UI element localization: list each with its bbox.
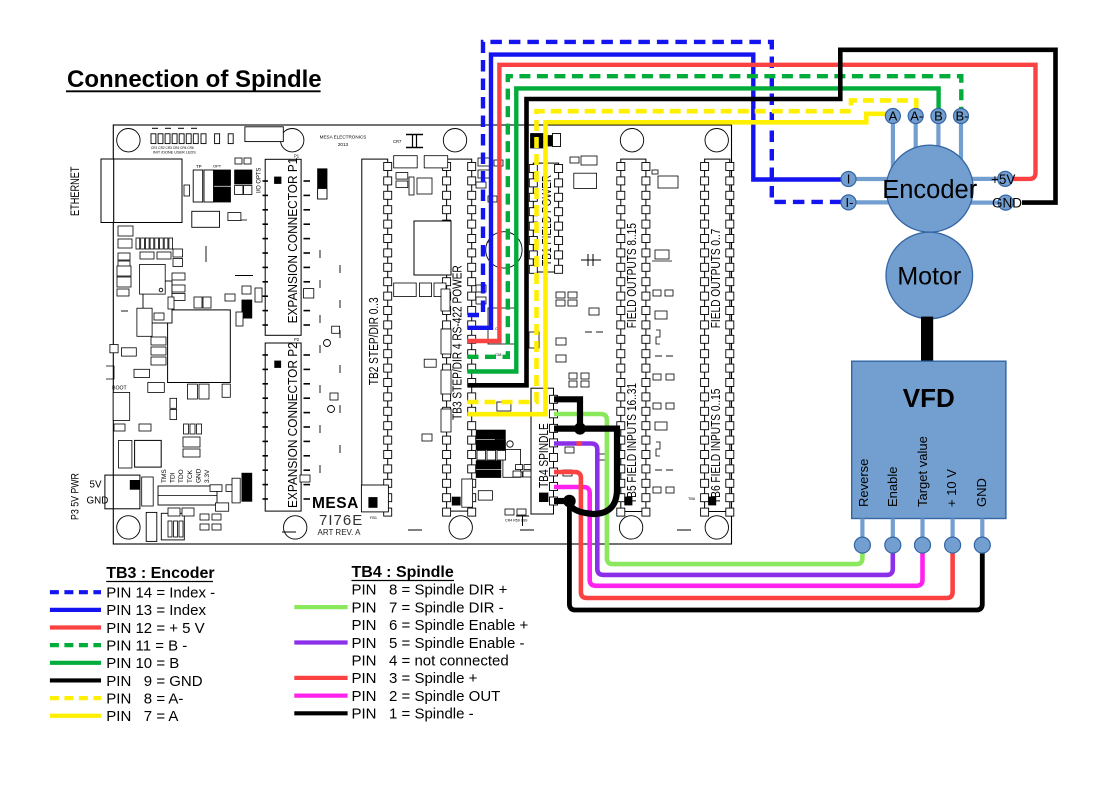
legend swatch TB3 pin13 Index [50, 608, 101, 612]
legend swatch TB4 pin3 Spindle+ [294, 676, 347, 680]
connector P3 5V power [105, 475, 140, 509]
connector P5 [361, 485, 388, 520]
svg-text:TB3 STEP/DIR 4 RS-422 POWER: TB3 STEP/DIR 4 RS-422 POWER [450, 265, 464, 420]
svg-text:I/O OPTS: I/O OPTS [255, 168, 262, 193]
svg-text:PIN 10 = B: PIN 10 = B [106, 655, 179, 672]
motor circle [886, 232, 973, 319]
jumper TB4 pin1 to node (black) [554, 498, 569, 504]
left misc components [106, 226, 262, 537]
connector TB2 STEP/DIR 0..3 [362, 159, 392, 516]
legend TB4 header [352, 564, 455, 581]
component CR7 cap symbol [393, 135, 423, 148]
terminal I- [841, 195, 856, 210]
mid channel components TB2-TB3 [394, 156, 451, 441]
VFD terminal Target value [915, 537, 931, 553]
svg-text:PIN 8 = Spindle DIR +: PIN 8 = Spindle DIR + [352, 582, 508, 599]
svg-text:CR1 CR2 CR3 CR4 CR5: CR1 CR2 CR3 CR4 CR5 CR6 [151, 146, 194, 150]
motor shaft [921, 317, 932, 362]
svg-text:ETHERNET: ETHERNET [70, 166, 82, 216]
opto block W2 W3 [212, 170, 252, 202]
JTAG labels TMS TDI TDO TCK GND 3.3V [161, 468, 211, 483]
svg-text:PIN 5 = Spindle Enable -: PIN 5 = Spindle Enable - [352, 635, 525, 652]
LED row CR1-CR6 [151, 128, 233, 143]
svg-text:PIN 6 = Spindle Enable +: PIN 6 = Spindle Enable + [352, 617, 529, 634]
connector P2 pin-1 marker [275, 361, 281, 368]
legend swatch TB3 pin7 A [50, 714, 101, 718]
junction node pin1 [563, 495, 576, 508]
svg-text:FIELD OUTPUTS 8..15: FIELD OUTPUTS 8..15 [625, 223, 639, 328]
TB1 top black connector [531, 134, 561, 149]
encoder stub lines I I- +5V GND [855, 179, 1001, 203]
label MESA ELECTRONICS 2013 [320, 135, 367, 148]
connector TB1 FIELD POWER [529, 163, 562, 273]
VFD terminal GND [974, 537, 990, 553]
connector P1 pin-1 marker [275, 177, 282, 184]
svg-text:B-: B- [956, 109, 969, 124]
legend swatch TB3 pin12 +5V [50, 625, 101, 629]
terminal A- [908, 109, 923, 124]
svg-text:I-: I- [846, 195, 854, 210]
wire PIN 10 B (green) [468, 88, 939, 371]
svg-text:TP: TP [196, 164, 202, 169]
svg-text:TMS: TMS [161, 469, 168, 483]
svg-text:ART REV. A: ART REV. A [318, 528, 362, 537]
svg-text:P2: P2 [294, 337, 300, 342]
component W6 jumper [318, 169, 327, 199]
svg-text:PIN 2 = Spindle OUT: PIN 2 = Spindle OUT [352, 688, 501, 705]
svg-text:CR4 R59 C89: CR4 R59 C89 [505, 519, 527, 523]
VFD terminal labels [856, 436, 989, 507]
svg-text:PIN 8 = A-: PIN 8 = A- [106, 690, 183, 707]
FPGA chip U6 [168, 310, 231, 383]
junction node pin6/pin8 [574, 423, 586, 435]
component W8 jumper [242, 300, 252, 318]
svg-text:Reverse: Reverse [856, 459, 871, 507]
wire TB4 pin3 Spindle+ (red) [554, 472, 953, 598]
svg-text:PIN 9 = GND: PIN 9 = GND [106, 673, 202, 690]
svg-text:I: I [847, 172, 851, 187]
connector P1 expansion [265, 157, 301, 335]
ethernet jack [101, 159, 182, 223]
svg-text:TB2 STEP/DIR 0..3: TB2 STEP/DIR 0..3 [367, 297, 381, 385]
svg-text:TB4 : Spindle: TB4 : Spindle [352, 564, 454, 581]
connector TB4 pin-1 marker [539, 493, 548, 502]
board edge through jack [113, 159, 115, 223]
jumper TB4 pin8 (black) [554, 399, 580, 425]
wire TB4 pin5 Spindle Enable- (purple) [554, 444, 893, 575]
black jumpers W10 W11 [476, 430, 505, 477]
svg-text:P1: P1 [294, 154, 300, 159]
VFD terminal +10V [945, 537, 961, 553]
legend swatch TB4 pin5 Spindle Enable- [294, 640, 347, 644]
svg-text:INIT /DONE USER LEDS: INIT /DONE USER LEDS [153, 151, 196, 155]
wire TB4 pin1 Spindle- (black) [569, 501, 982, 610]
inductor L6 [135, 440, 162, 467]
connector TB5 pin-1 marker [625, 497, 632, 505]
svg-text:PIN 7 = A: PIN 7 = A [106, 708, 178, 725]
test pads TP1 TP2 [193, 158, 251, 202]
terminal +5V [998, 171, 1013, 186]
component C6 [184, 185, 190, 196]
svg-text:7I76E: 7I76E [319, 512, 363, 529]
svg-text:МESA: МESA [312, 495, 359, 512]
connector TB4 SPINDLE [531, 388, 558, 514]
component R58 [228, 213, 247, 221]
TB5-TB6 channel components [652, 170, 695, 501]
red tick on purple wire [577, 441, 583, 446]
encoder circle [886, 145, 973, 232]
svg-text:OPT: OPT [213, 164, 222, 169]
TB3-TB4 channel components [462, 158, 531, 507]
wire TB4 pin7 Spindle DIR- (light green) [554, 414, 862, 564]
svg-text:3.3V: 3.3V [204, 469, 211, 483]
legend swatch TB3 pin10 B [50, 661, 101, 665]
svg-text:GND: GND [974, 478, 989, 507]
svg-text:GND: GND [195, 468, 202, 483]
svg-text:FIELD OUTPUTS 0..7: FIELD OUTPUTS 0..7 [709, 229, 723, 329]
encoder stub lines A A- B B- [893, 122, 961, 168]
svg-text:TB3 : Encoder: TB3 : Encoder [106, 565, 214, 582]
svg-text:TB6 FIELD INPUTS 0..15: TB6 FIELD INPUTS 0..15 [709, 389, 723, 504]
wire PIN 13 Index (blue) [468, 55, 842, 328]
svg-text:TB4 SPINDLE: TB4 SPINDLE [537, 423, 551, 488]
connector TB6 FIELD INPUTS 0..15 / FIELD OUTPUTS 0..7 [701, 159, 734, 516]
VFD terminal Reverse [854, 537, 870, 553]
svg-text:PIN 11 = B -: PIN 11 = B - [106, 637, 187, 654]
mounting holes [117, 129, 729, 540]
svg-text:A-: A- [910, 109, 923, 124]
svg-text:Motor: Motor [897, 263, 961, 291]
wire PIN 11 B- (green dashed) [468, 76, 962, 357]
terminal B- [954, 109, 969, 124]
connector TB5 FIELD INPUTS 16..31 / FIELD OUTPUTS 8..15 [617, 159, 650, 516]
svg-text:TB6: TB6 [688, 497, 695, 501]
wire TB4 pin2 Spindle OUT (magenta) [554, 487, 923, 586]
JTAG header [158, 486, 217, 505]
VFD terminal stubs [862, 519, 982, 542]
inductor L1 [414, 221, 451, 275]
wire PIN 8 A- (yellow dashed) [468, 100, 917, 402]
black jumper W5 [242, 473, 252, 501]
svg-text:+5V: +5V [991, 172, 1015, 187]
P1 channel components [300, 250, 340, 482]
connector TB6 pin-1 marker [709, 497, 716, 505]
svg-text:BOOT: BOOT [112, 386, 128, 392]
jumper TB4 pin6 (black) [554, 429, 617, 514]
svg-text:EXPANSION CONNECTOR P1: EXPANSION CONNECTOR P1 [286, 157, 300, 323]
TB4 bottom components [505, 471, 531, 526]
svg-text:TCK: TCK [187, 469, 194, 483]
legend swatch TB3 pin8 A- [50, 696, 101, 700]
legend TB3 header [106, 565, 214, 582]
svg-text:Target value: Target value [915, 436, 930, 507]
svg-text:TB5 FIELD INPUTS 16..31: TB5 FIELD INPUTS 16..31 [625, 383, 639, 504]
svg-text:PIN 14 = Index -: PIN 14 = Index - [106, 585, 215, 602]
svg-text:PIN 13 = Index: PIN 13 = Index [106, 602, 206, 619]
wire PIN 12 +5V (red) [468, 65, 1036, 341]
VFD box [852, 361, 1006, 518]
chip U27 [161, 513, 184, 540]
connector TB3 pin-1 marker [452, 497, 460, 505]
svg-text:A: A [889, 109, 898, 124]
legend swatch TB3 pin9 GND [50, 678, 101, 682]
terminal I [841, 172, 856, 187]
svg-text:PIN 3 = Spindle +: PIN 3 = Spindle + [352, 670, 478, 687]
legend swatch TB4 pin1 Spindle- [294, 711, 347, 715]
board edge through P3 [112, 475, 114, 509]
label INIT /DONE USER LEDS [151, 146, 196, 155]
connector TB3 STEP/DIR 4 RS-422 POWER [443, 159, 476, 516]
svg-text:PIN 7 = Spindle DIR -: PIN 7 = Spindle DIR - [352, 599, 504, 616]
terminal A [885, 109, 900, 124]
wire PIN 14 Index- (blue dashed) [468, 42, 842, 315]
chip U6b [143, 281, 172, 323]
connector P2 pin ticks [263, 355, 311, 499]
svg-text:2013: 2013 [338, 142, 349, 147]
svg-text:PIN 4 = not connected: PIN 4 = not connected [352, 653, 509, 670]
title: Connection of Spindle [66, 66, 322, 93]
svg-text:Encoder: Encoder [882, 176, 977, 204]
svg-text:MESA ELECTRONICS: MESA ELECTRONICS [320, 135, 367, 140]
legend swatch TB4 pin2 Spindle OUT [294, 693, 347, 697]
connector P4 [146, 512, 157, 541]
svg-text:PIN 12 = + 5 V: PIN 12 = + 5 V [106, 620, 204, 637]
terminal B [931, 109, 946, 124]
svg-text:CR7: CR7 [393, 139, 402, 144]
component D [245, 127, 283, 142]
svg-text:GND: GND [992, 196, 1022, 211]
legend swatch TB3 pin14 Index- [50, 590, 101, 594]
VFD terminal Enable [885, 537, 901, 553]
MESA logo [312, 495, 363, 537]
svg-text:EXPANSION CONNECTOR P2: EXPANSION CONNECTOR P2 [286, 342, 300, 508]
bottom edge dashes [282, 530, 691, 532]
svg-text:Connection of Spindle: Connection of Spindle [67, 66, 322, 93]
wire PIN 7 A (yellow) [468, 114, 887, 414]
wire PIN 9 GND (black) [468, 50, 1056, 386]
svg-text:TDO: TDO [178, 469, 185, 483]
svg-text:Enable: Enable [885, 467, 900, 507]
TB4-TB5 channel components [556, 156, 606, 476]
component C80 [142, 477, 154, 506]
svg-text:+ 10 V: + 10 V [944, 469, 959, 507]
svg-text:GND: GND [87, 496, 109, 507]
legend swatch TB3 pin11 B- [50, 643, 101, 647]
transformer T1 [468, 308, 539, 358]
connector P1 pin ticks [263, 181, 311, 325]
svg-text:B: B [934, 109, 943, 124]
svg-text:VFD: VFD [903, 383, 955, 413]
legend swatch TB4 pin7 Spindle DIR- [294, 605, 347, 609]
component CN0 [192, 211, 220, 227]
PCB board 7I76E outline [113, 125, 731, 544]
terminal GND enc [998, 195, 1013, 210]
connector TB2 pin-1 marker [368, 497, 375, 505]
svg-text:P3 5V PWR: P3 5V PWR [70, 473, 82, 520]
svg-text:5V: 5V [90, 480, 102, 491]
svg-text:FB1: FB1 [370, 516, 377, 520]
connector P2 expansion [265, 342, 301, 511]
svg-text:TDI: TDI [170, 472, 177, 483]
svg-text:PIN 1 = Spindle -: PIN 1 = Spindle - [352, 706, 474, 723]
